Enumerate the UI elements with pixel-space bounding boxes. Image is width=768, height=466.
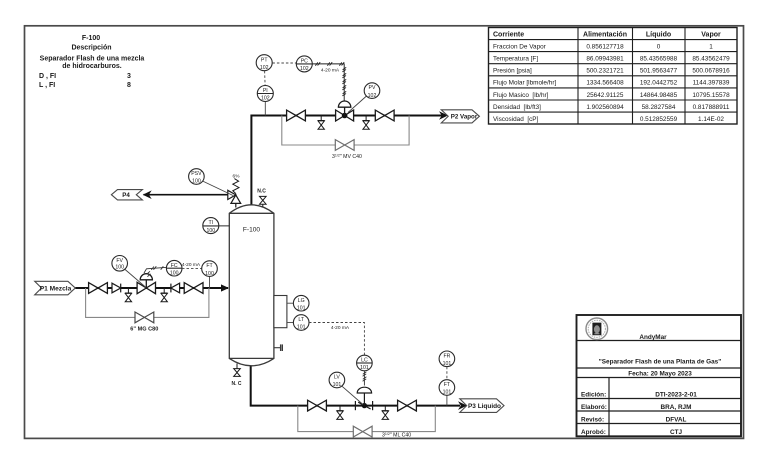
svg-text:Fecha: 20 Mayo 2023: Fecha: 20 Mayo 2023: [628, 370, 692, 377]
svg-text:N. C: N. C: [232, 381, 242, 387]
svg-text:100: 100: [115, 265, 124, 271]
svg-text:FV: FV: [116, 258, 123, 264]
svg-text:PI: PI: [263, 88, 268, 94]
arrow into vessel: [221, 284, 229, 291]
svg-text:PV: PV: [369, 85, 376, 91]
instrument bubble LT 101: [287, 315, 309, 331]
svg-text:Fraccion De Vapor: Fraccion De Vapor: [493, 43, 547, 50]
instrument bubble PV 102: [348, 83, 380, 113]
svg-text:0.512852559: 0.512852559: [640, 116, 678, 123]
svg-text:PSV: PSV: [191, 171, 202, 177]
tag P1 Mezcla: [35, 281, 76, 295]
svg-text:3: 3: [127, 73, 131, 80]
instrument bubble LV 101: [329, 372, 363, 404]
svg-text:Flujo Masico [lb/hr]: Flujo Masico [lb/hr]: [493, 92, 549, 99]
control valve FV-100: [137, 274, 155, 294]
svg-text:Temperatura [F]: Temperatura [F]: [493, 56, 538, 63]
svg-text:4-20 mA: 4-20 mA: [182, 262, 201, 268]
drain valve feed 2: [161, 288, 168, 302]
svg-text:PC: PC: [301, 59, 308, 65]
control valve LV-101 with flanges: [355, 387, 372, 410]
arrow into P4 tag (points left): [143, 190, 152, 199]
table header text: [493, 31, 721, 38]
svg-text:101: 101: [297, 325, 306, 331]
svg-text:DFVAL: DFVAL: [666, 416, 687, 423]
svg-text:6%: 6%: [233, 173, 241, 179]
title block text: [581, 334, 721, 436]
title block: [577, 315, 742, 436]
svg-text:101: 101: [360, 365, 369, 371]
bypass valve vapor (3 1/2" MV C40): [335, 140, 354, 151]
gate valve vapor 2: [375, 110, 394, 121]
svg-text:F-100: F-100: [82, 35, 100, 42]
svg-text:102: 102: [260, 65, 269, 71]
arrow into P2 tag: [439, 111, 448, 120]
svg-text:P2 Vapor: P2 Vapor: [451, 114, 478, 121]
svg-text:102: 102: [368, 93, 377, 99]
dashed signal FC-FT: [182, 267, 202, 269]
svg-text:Vapor: Vapor: [701, 31, 721, 38]
wire: liquid bypass: [298, 406, 436, 432]
instrument bubble PC 102 (panel): [296, 56, 312, 72]
svg-text:1.14E-02: 1.14E-02: [698, 116, 724, 123]
svg-text:4-20 mA: 4-20 mA: [331, 325, 350, 331]
svg-text:Elaboró:: Elaboró:: [581, 404, 607, 411]
vessel F-100: [229, 205, 274, 366]
svg-text:Alimentación: Alimentación: [583, 31, 627, 38]
table data text: [493, 43, 730, 123]
svg-text:100: 100: [192, 179, 201, 185]
svg-text:101: 101: [333, 382, 342, 388]
instrument bubble FT 100: [202, 261, 218, 288]
svg-text:"Separador Flash de una Planta: "Separador Flash de una Planta de Gas": [599, 359, 722, 366]
NC valve bottom nozzle: [234, 364, 241, 377]
svg-text:25642.91125: 25642.91125: [587, 92, 624, 99]
svg-text:LT: LT: [298, 317, 304, 323]
drain valve feed 1: [125, 288, 132, 302]
svg-text:500.2321721: 500.2321721: [586, 68, 624, 75]
signal squiggle FC to FV actuator: [144, 266, 167, 276]
svg-text:P3 Liquido: P3 Liquido: [468, 403, 501, 410]
svg-text:F-100: F-100: [243, 227, 261, 234]
wire: vapor riser from vessel top: [251, 116, 443, 206]
svg-text:L , FI: L , FI: [39, 82, 55, 89]
svg-text:Aprobó:: Aprobó:: [581, 429, 606, 436]
instrument bubble PI 102 (panel): [257, 86, 273, 116]
svg-text:D , FI: D , FI: [39, 73, 56, 80]
svg-text:101: 101: [443, 390, 452, 396]
gate valve feed 1: [89, 283, 108, 294]
svg-text:1.902560894: 1.902560894: [586, 104, 624, 111]
svg-text:FT: FT: [444, 382, 451, 388]
svg-text:P1 Mezcla: P1 Mezcla: [40, 285, 72, 292]
dashed signal LT-LC: [309, 323, 364, 356]
relief valve PSV (two triangles): [228, 190, 241, 207]
svg-text:10795.15578: 10795.15578: [692, 92, 730, 99]
control valve PV-102 (globe with ball): [336, 101, 354, 121]
svg-text:CTJ: CTJ: [670, 429, 683, 436]
svg-text:100: 100: [206, 228, 215, 234]
wire: vapor bypass: [282, 116, 409, 146]
svg-text:de hidrocarburos.: de hidrocarburos.: [62, 63, 122, 70]
drain valve liquid 1: [337, 406, 344, 420]
PSV spring zigzag: [233, 179, 239, 194]
svg-text:BRA, RJM: BRA, RJM: [661, 404, 692, 411]
wire: feed main line P1 to vessel: [75, 287, 228, 289]
svg-text:102: 102: [261, 96, 270, 102]
svg-text:58.2827584: 58.2827584: [642, 104, 676, 111]
svg-text:Edición:: Edición:: [581, 392, 606, 399]
NC valve top nozzle: [260, 196, 267, 206]
bypass valve feed (6" MG C80): [135, 312, 154, 323]
wire: feed bypass: [86, 288, 209, 317]
wire: PSV discharge line to P4: [144, 194, 228, 196]
arrow into P3 tag: [458, 401, 467, 410]
svg-text:Densidad [lb/ft3]: Densidad [lb/ft3]: [493, 104, 541, 111]
instrument bubble FR 101: [439, 351, 455, 367]
svg-text:500.0678916: 500.0678916: [692, 68, 730, 75]
svg-text:TI: TI: [208, 220, 213, 226]
signal squiggle LC to LV actuator: [363, 371, 367, 386]
svg-text:0: 0: [657, 43, 661, 50]
stream table: [489, 28, 738, 125]
dashed FR-FT: [446, 367, 448, 380]
tag P4 (points left): [111, 190, 142, 200]
svg-text:PT: PT: [261, 57, 268, 63]
svg-text:FT: FT: [206, 263, 213, 269]
svg-text:0.856127718: 0.856127718: [586, 43, 624, 50]
svg-text:Revisó:: Revisó:: [581, 416, 604, 423]
svg-text:FR: FR: [443, 353, 450, 359]
gate valve vapor 1: [287, 110, 306, 121]
svg-text:Separador Flash de una mezcla: Separador Flash de una mezcla: [40, 56, 145, 63]
svg-text:8: 8: [127, 82, 131, 89]
check valve / reducer left: [171, 283, 180, 293]
svg-text:501.9563477: 501.9563477: [640, 68, 678, 75]
instrument bubble FC 100 (panel): [166, 260, 182, 276]
svg-text:100: 100: [205, 271, 214, 277]
svg-text:Descripción: Descripción: [71, 45, 111, 52]
svg-text:Viscosidad [cP]: Viscosidad [cP]: [493, 116, 539, 123]
svg-text:86.09943981: 86.09943981: [586, 56, 624, 63]
svg-text:100: 100: [170, 270, 179, 276]
dashed PT-PI: [264, 71, 267, 85]
instrument bubble TI 100: [203, 218, 230, 234]
svg-text:FC: FC: [171, 263, 178, 269]
description text block: [39, 35, 144, 89]
svg-text:N.C: N.C: [257, 188, 266, 194]
LG/LT standpipe bridle: [274, 296, 287, 328]
right nozzle with cap: [274, 344, 282, 351]
instrument bubble PSV 100: [189, 169, 233, 196]
svg-text:LG: LG: [298, 298, 305, 304]
instrument bubble PT 102: [256, 55, 272, 71]
svg-text:101: 101: [443, 361, 452, 367]
svg-text:LC: LC: [361, 358, 368, 364]
svg-text:101: 101: [297, 305, 306, 311]
check valve / reducer right: [112, 283, 121, 293]
tag P2 Vapor: [441, 110, 479, 123]
instrument bubble FV 100: [112, 255, 146, 287]
drain valve vapor 2: [363, 116, 370, 130]
gate valve feed 2: [184, 283, 203, 294]
svg-text:85.43562479: 85.43562479: [692, 56, 730, 63]
svg-text:Corriente: Corriente: [493, 31, 524, 38]
signal line PC to PV with slashes: [312, 62, 346, 100]
svg-text:1144.397839: 1144.397839: [693, 80, 730, 87]
drain valve liquid 2: [382, 406, 389, 420]
svg-text:LV: LV: [334, 375, 340, 381]
instrument bubble FT 101: [439, 380, 455, 406]
gate valve liquid 1: [308, 400, 327, 411]
tag P3 Liquido: [460, 399, 504, 413]
svg-text:14864.98485: 14864.98485: [640, 92, 678, 99]
svg-text:AndyMar: AndyMar: [639, 334, 667, 341]
dashed PT-PC: [272, 62, 296, 64]
gate valve liquid 2: [398, 400, 417, 411]
svg-text:0.817888911: 0.817888911: [693, 104, 730, 111]
svg-text:P4: P4: [122, 192, 130, 199]
svg-text:4-20 mA: 4-20 mA: [321, 68, 340, 74]
logo emblem: [586, 318, 608, 340]
svg-text:DTI-2023-2-01: DTI-2023-2-01: [655, 392, 697, 399]
svg-text:192.0442752: 192.0442752: [640, 80, 678, 87]
instrument bubble LG 101: [287, 295, 309, 311]
bypass valve liquid (3 1/2" ML C40): [353, 426, 372, 437]
svg-text:102: 102: [300, 66, 309, 72]
svg-text:Líquido: Líquido: [646, 31, 671, 38]
svg-text:6" MG C80: 6" MG C80: [130, 327, 158, 333]
svg-text:Presión [psia]: Presión [psia]: [493, 68, 532, 75]
svg-text:Flujo Molar [lbmole/hr]: Flujo Molar [lbmole/hr]: [493, 80, 556, 87]
drain valve vapor 1: [318, 116, 325, 130]
wire: liquid line from vessel bottom: [251, 366, 460, 406]
instrument bubble LC 101 (panel): [357, 355, 373, 371]
svg-text:85.43565988: 85.43565988: [640, 56, 678, 63]
svg-text:1334.566408: 1334.566408: [586, 80, 624, 87]
svg-text:1: 1: [709, 43, 713, 50]
